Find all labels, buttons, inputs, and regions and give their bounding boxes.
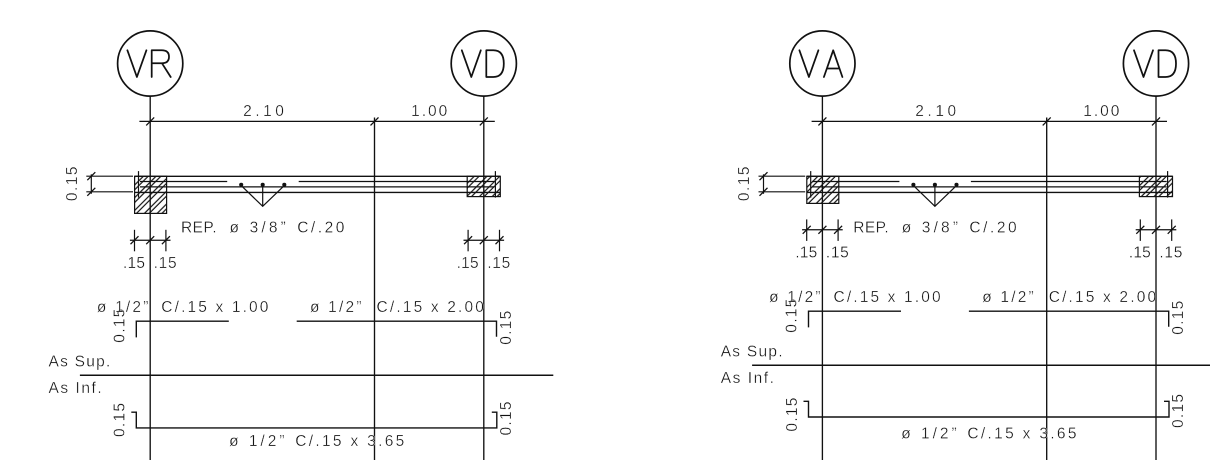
callout leader V xyxy=(913,186,956,207)
svg-text:0.15: 0.15 xyxy=(736,167,753,202)
support hatch at VD xyxy=(1139,176,1172,196)
svg-text:C/.15 x 3.65: C/.15 x 3.65 xyxy=(967,426,1076,443)
divider line As Sup/As Inf xyxy=(80,374,553,376)
dim tick xyxy=(146,117,154,125)
svg-text:2.10: 2.10 xyxy=(243,103,284,120)
axis bubble VA xyxy=(790,31,855,96)
slab top line xyxy=(135,175,501,177)
svg-text:1.00: 1.00 xyxy=(411,103,447,120)
svg-text:0.15: 0.15 xyxy=(112,403,129,437)
top rebar line left segment xyxy=(812,181,899,183)
right detail panel VA-VD xyxy=(721,31,1210,460)
dim tick xyxy=(1043,117,1051,125)
bottom rebar line xyxy=(140,186,495,188)
svg-text:ø 1/2”: ø 1/2” xyxy=(97,299,148,316)
slab bottom line xyxy=(807,191,1173,193)
dim tick xyxy=(1152,117,1160,125)
rebar dot 3 xyxy=(954,183,958,187)
dimension line 2.10 + 1.00 xyxy=(812,120,1167,122)
dim .15/.15 at VD xyxy=(1129,219,1183,261)
slab left end edge xyxy=(138,171,140,198)
svg-text:C/.15 x 2.00: C/.15 x 2.00 xyxy=(377,299,485,316)
svg-text:2.10: 2.10 xyxy=(915,103,956,120)
top bar 1 (C/.15 x 1.00) xyxy=(136,321,229,337)
bottom bar (C/.15 x 3.65) xyxy=(804,401,1170,417)
svg-text:.15: .15 xyxy=(487,255,510,272)
svg-text:.15: .15 xyxy=(123,255,145,272)
grid line VD xyxy=(483,96,485,460)
svg-text:REP.: REP. xyxy=(853,220,889,237)
dim 0.15 slab thickness xyxy=(736,167,805,202)
dim tick xyxy=(480,117,488,125)
svg-text:0.15: 0.15 xyxy=(1170,301,1187,335)
dim 0.15 slab thickness xyxy=(64,167,133,202)
dim .15/.15 at VR xyxy=(123,230,177,272)
svg-text:C/.15 x 3.65: C/.15 x 3.65 xyxy=(295,433,404,450)
axis bubble VR xyxy=(118,31,183,96)
rebar dot 1 xyxy=(239,183,243,187)
callout leader V xyxy=(241,186,284,207)
axis bubble VD xyxy=(1123,31,1188,96)
rebar dot 2 xyxy=(933,183,937,187)
grid line VR xyxy=(149,96,151,460)
support hatch at VA xyxy=(807,176,839,203)
svg-text:C/.20: C/.20 xyxy=(297,220,345,237)
support hatch at VD xyxy=(467,176,500,196)
bottom bar (C/.15 x 3.65) xyxy=(131,412,497,428)
svg-text:C/.15 x 1.00: C/.15 x 1.00 xyxy=(834,289,941,306)
top rebar line right segment xyxy=(971,181,1167,183)
grid line middle xyxy=(374,118,376,460)
svg-text:ø 3/8”: ø 3/8” xyxy=(902,220,958,237)
dim tick xyxy=(818,117,826,125)
slab right end edge xyxy=(494,171,496,198)
grid line middle xyxy=(1046,118,1048,460)
svg-text:As Inf.: As Inf. xyxy=(49,380,102,397)
svg-text:1.00: 1.00 xyxy=(1083,103,1119,120)
svg-text:As Sup.: As Sup. xyxy=(49,353,111,370)
svg-text:C/.20: C/.20 xyxy=(969,220,1017,237)
svg-text:ø 1/2”: ø 1/2” xyxy=(982,289,1033,306)
top bar 2 (C/.15 x 2.00) xyxy=(969,311,1169,327)
svg-text:ø 1/2”: ø 1/2” xyxy=(901,426,956,443)
bottom rebar line xyxy=(812,186,1166,188)
svg-text:0.15: 0.15 xyxy=(498,402,515,436)
svg-text:As Sup.: As Sup. xyxy=(721,343,783,360)
slab top line xyxy=(807,175,1173,177)
divider line As Sup/As Inf xyxy=(752,364,1210,366)
rebar dot 3 xyxy=(282,183,286,187)
svg-text:REP.: REP. xyxy=(181,220,217,237)
svg-text:.15: .15 xyxy=(1129,245,1151,262)
svg-text:0.15: 0.15 xyxy=(784,398,801,432)
svg-text:0.15: 0.15 xyxy=(1170,394,1187,428)
left detail panel VR-VD xyxy=(49,31,554,460)
axis bubble VD xyxy=(451,31,516,96)
svg-text:ø 1/2”: ø 1/2” xyxy=(229,433,284,450)
slab right end edge xyxy=(1167,171,1169,198)
top rebar line left segment xyxy=(140,181,227,183)
slab bottom line xyxy=(135,191,501,193)
top bar 1 (C/.15 x 1.00) xyxy=(809,311,902,327)
svg-text:ø 1/2”: ø 1/2” xyxy=(769,289,821,306)
rebar dot 2 xyxy=(261,183,265,187)
svg-text:.15: .15 xyxy=(826,245,849,262)
grid line VA xyxy=(821,96,823,460)
grid line VD xyxy=(1155,96,1157,460)
svg-text:ø 1/2”: ø 1/2” xyxy=(310,299,362,316)
slab left end edge xyxy=(810,171,812,198)
svg-text:0.15: 0.15 xyxy=(498,311,515,345)
svg-text:.15: .15 xyxy=(795,245,817,262)
svg-text:.15: .15 xyxy=(457,255,479,272)
rebar dot 1 xyxy=(911,183,915,187)
svg-text:C/.15 x 1.00: C/.15 x 1.00 xyxy=(161,299,268,316)
dim tick xyxy=(371,117,379,125)
top bar 2 (C/.15 x 2.00) xyxy=(297,321,497,337)
dimension line 2.10 + 1.00 xyxy=(139,120,494,122)
svg-text:ø 3/8”: ø 3/8” xyxy=(230,220,286,237)
svg-text:.15: .15 xyxy=(1159,245,1182,262)
dim .15/.15 at VA xyxy=(795,219,849,261)
dim .15/.15 at VD xyxy=(457,230,511,272)
svg-text:C/.15 x 2.00: C/.15 x 2.00 xyxy=(1049,289,1157,306)
svg-text:As Inf.: As Inf. xyxy=(721,370,774,387)
support hatch at VR xyxy=(135,176,167,213)
top rebar line right segment xyxy=(299,181,495,183)
svg-text:.15: .15 xyxy=(154,255,177,272)
svg-text:0.15: 0.15 xyxy=(64,167,81,202)
